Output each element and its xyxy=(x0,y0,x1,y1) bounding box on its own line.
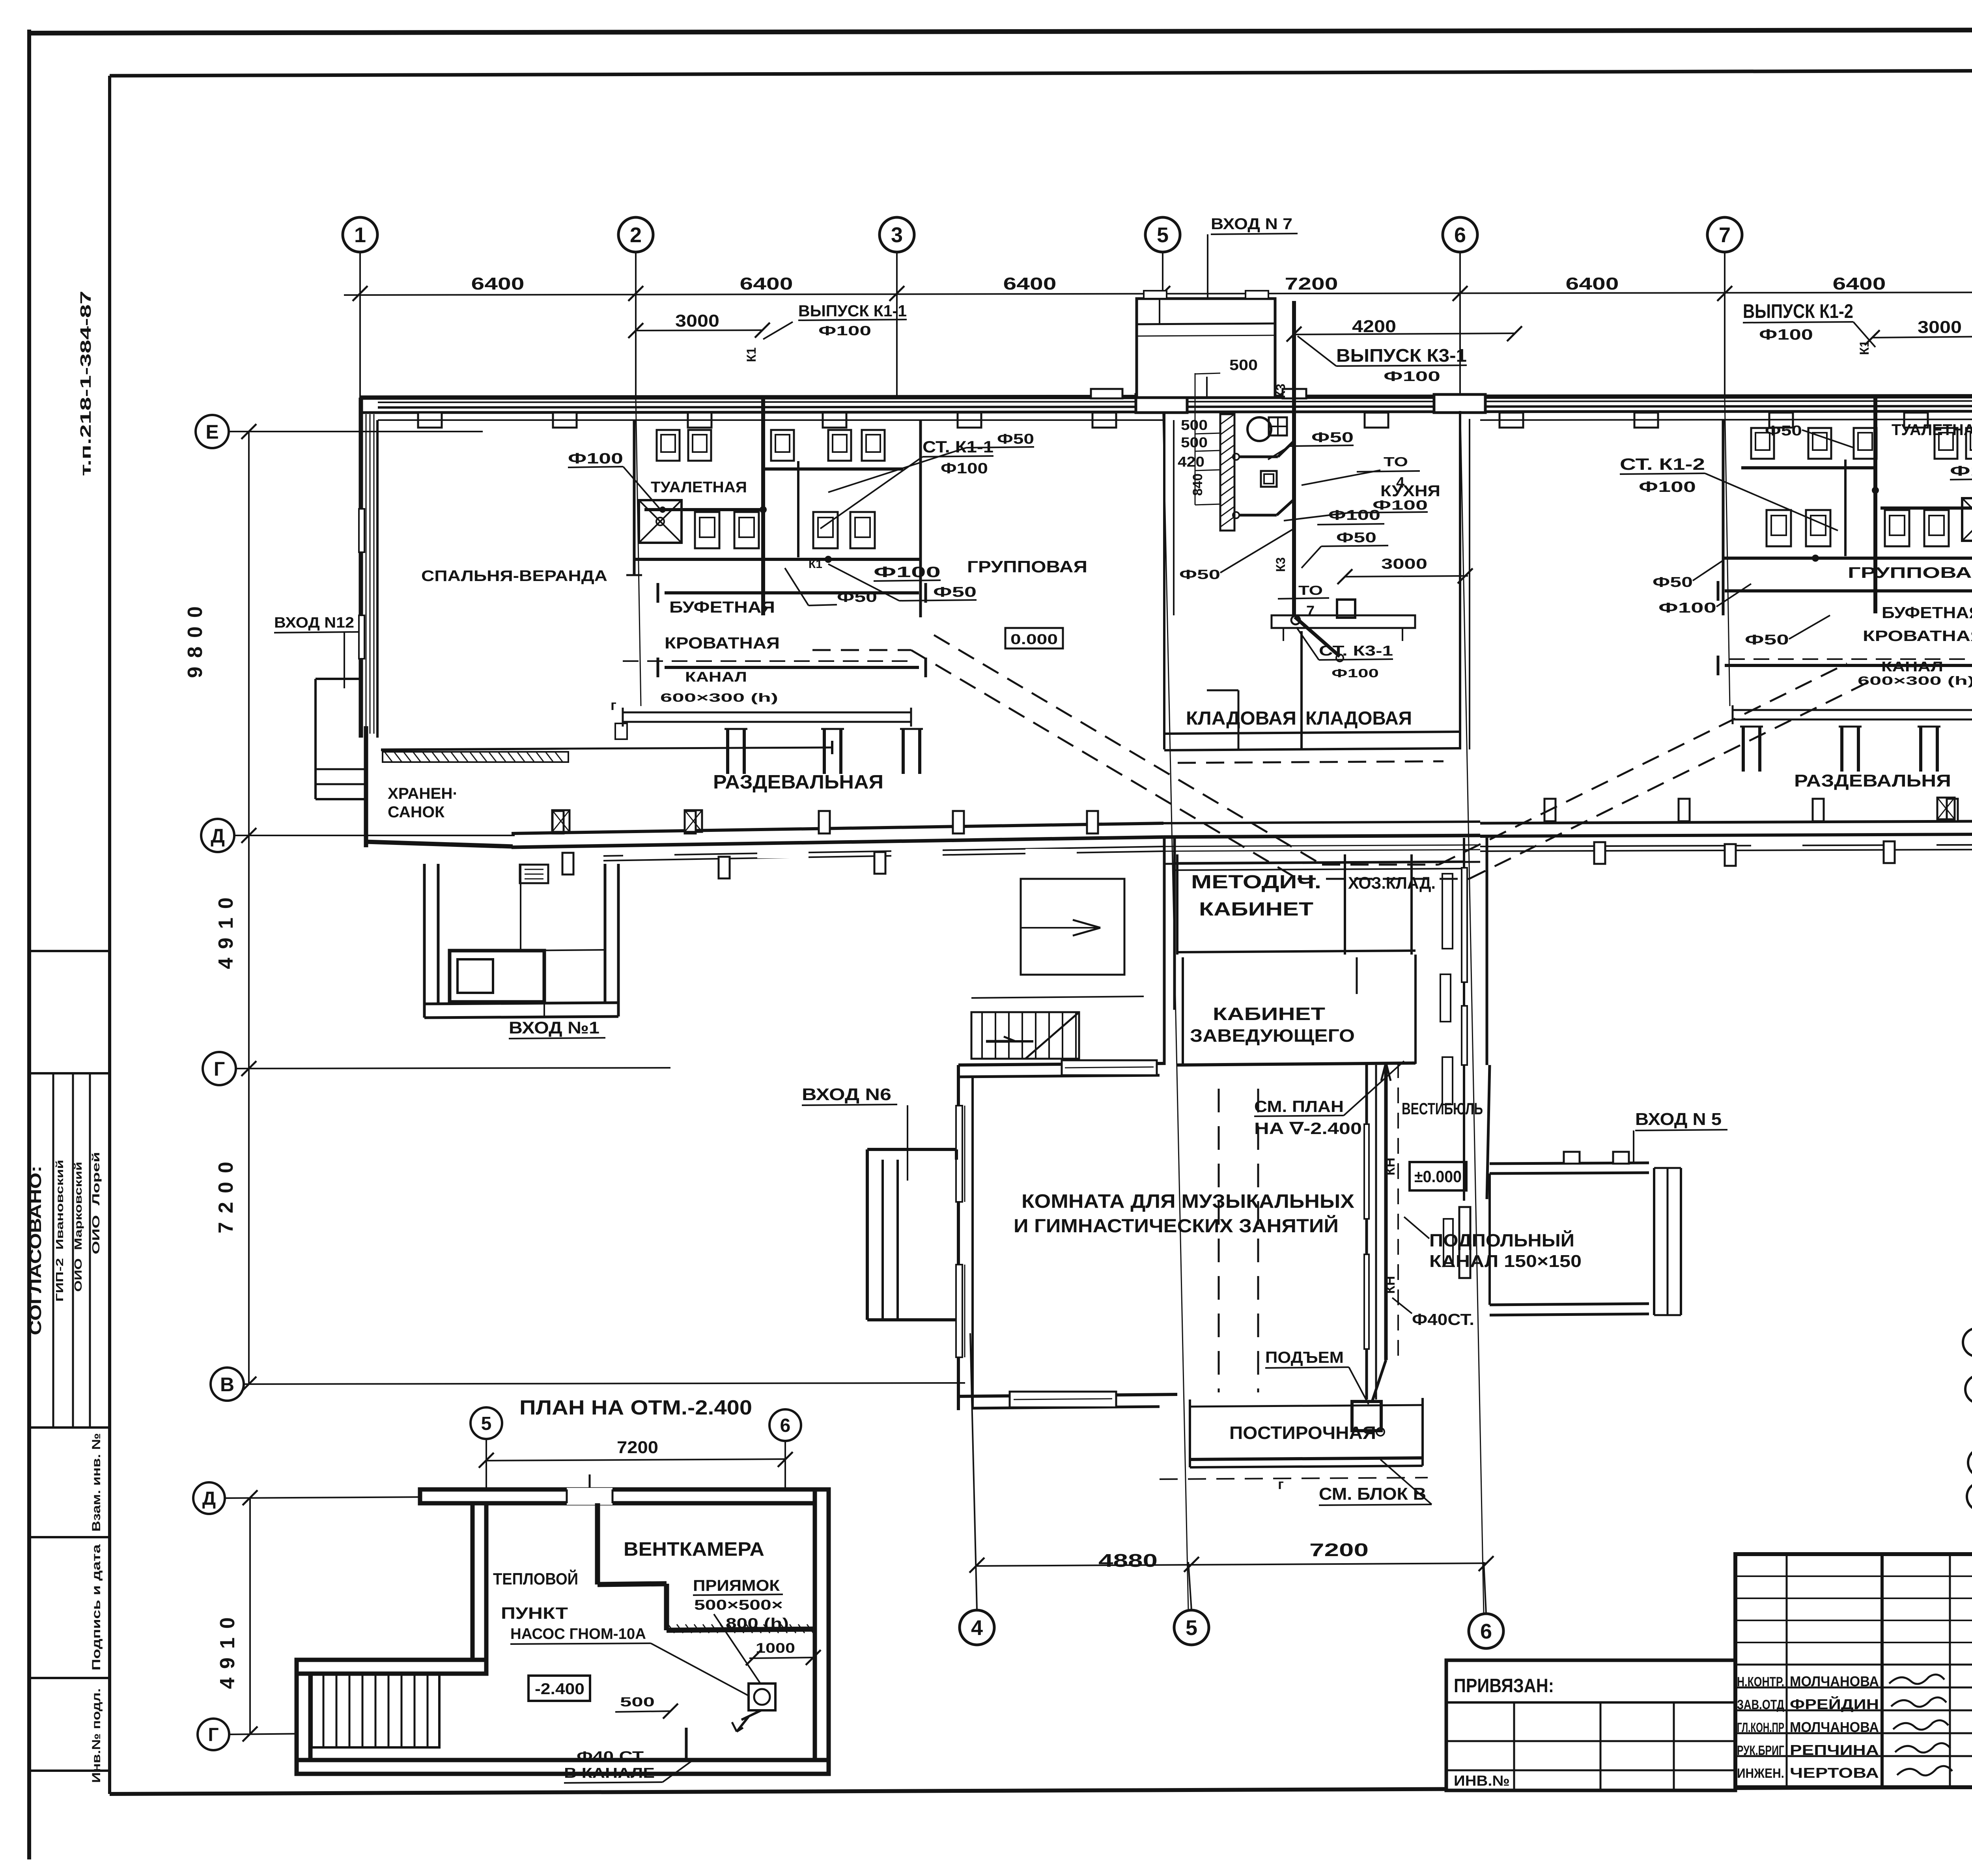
svg-text:К1: К1 xyxy=(744,348,758,362)
porch N1 inner lines xyxy=(521,864,605,951)
basement pump xyxy=(732,1684,775,1732)
title block signature rows xyxy=(1735,1665,1972,1756)
svg-text:6400: 6400 xyxy=(471,274,525,293)
svg-text:ХРАНЕН·: ХРАНЕН· xyxy=(388,785,458,802)
title block main verticals xyxy=(1787,1551,1972,1787)
stamp rotated СОГЛАСОВАНО xyxy=(26,1166,45,1335)
dimension text 6400 xyxy=(1003,274,1057,293)
left bottom wall pier tab xyxy=(1087,811,1098,833)
left exterior wall glazing xyxy=(366,414,374,734)
svg-text:6400: 6400 xyxy=(740,274,793,293)
svg-text:Ф100: Ф100 xyxy=(874,564,941,581)
svg-text:ВХОД N6: ВХОД N6 xyxy=(802,1085,891,1104)
left wing bottom wall inner xyxy=(512,823,1163,833)
svg-text:ФРЕЙДИН: ФРЕЙДИН xyxy=(1790,1696,1879,1712)
stamp column divider y2721 xyxy=(29,1072,110,1074)
kitchen right wall xyxy=(1460,411,1470,749)
svg-text:СТ. К3-1: СТ. К3-1 xyxy=(1319,643,1393,659)
axis Д leader xyxy=(234,828,515,843)
doormat left wing xyxy=(520,865,548,883)
top dimension line xyxy=(344,292,1972,295)
svg-text:В: В xyxy=(220,1373,234,1396)
label Ф50 mid left xyxy=(828,564,977,601)
svg-text:КЛАДОВАЯ: КЛАДОВАЯ xyxy=(1186,708,1296,729)
stamp column divider y3619 xyxy=(29,1426,110,1429)
basement radiator zone xyxy=(312,1674,439,1747)
label K1 rotated right xyxy=(1857,340,1871,355)
label Кухня xyxy=(1380,482,1440,500)
partition wall tualet mid xyxy=(797,461,799,557)
wall pilaster tabs xyxy=(418,413,1972,428)
kitchen diagonal pipe xyxy=(1291,600,1355,661)
vestibule heater boxes xyxy=(1440,874,1470,1278)
svg-text:ЗАВ.ОТД: ЗАВ.ОТД xyxy=(1737,1697,1784,1712)
pipe K3 stack xyxy=(1274,301,1294,617)
label Ф50 upper left xyxy=(828,431,1034,492)
basement left wall lower xyxy=(297,1674,310,1760)
svg-text:ТУАЛЕТНАЯ: ТУАЛЕТНАЯ xyxy=(651,479,747,496)
svg-text:ИНВ.№: ИНВ.№ xyxy=(1454,1773,1510,1789)
dashed corridor left upper xyxy=(934,635,1322,865)
svg-text:НАСОС ГНОМ-10А: НАСОС ГНОМ-10А xyxy=(510,1626,646,1642)
svg-text:ГРУППОВАЯ: ГРУППОВАЯ xyxy=(1848,564,1972,581)
right wing bottom wall inner xyxy=(1480,820,1972,823)
basement top wall break xyxy=(567,1474,613,1505)
label Выпуск К1-1 xyxy=(798,302,907,338)
privyazan table outline xyxy=(1446,1660,1735,1790)
label K1 small mid xyxy=(809,558,822,571)
room corridor top wall xyxy=(1164,862,1480,864)
krovatnaya kanal duct xyxy=(615,708,911,739)
dashed corridor right lower xyxy=(1469,678,1877,879)
partition wall tualet right-wing L xyxy=(1722,419,1725,615)
svg-text:ЧЕРТОВА: ЧЕРТОВА xyxy=(1790,1765,1879,1781)
keyplan axis Д circle xyxy=(1965,1375,1972,1403)
svg-text:5: 5 xyxy=(481,1413,492,1434)
window sill right wing xyxy=(1885,838,1937,848)
shower tray with cross right xyxy=(1962,498,1972,541)
svg-text:7: 7 xyxy=(1719,223,1731,247)
right wing bottom wall glazing xyxy=(1480,844,1972,851)
dimension tick xyxy=(1717,286,1732,301)
room label Кроватная left xyxy=(665,634,780,652)
interior wall line right wing xyxy=(1480,419,1972,420)
label Выпуск К1-2 xyxy=(1743,300,1875,347)
svg-text:840: 840 xyxy=(1190,473,1205,496)
svg-text:500×500×: 500×500× xyxy=(694,1597,783,1613)
interior wall line left wing xyxy=(378,419,1163,421)
kladovaya bottom wall xyxy=(1164,748,1459,750)
stamp rotated doc number xyxy=(78,291,94,476)
sheet outer border top edge xyxy=(27,29,1972,33)
svg-text:Ф100: Ф100 xyxy=(1658,600,1716,616)
basement pipe elbow xyxy=(686,1728,710,1759)
corridor wall bufetnaya right xyxy=(1718,581,1972,601)
room label Групповая left xyxy=(967,557,1087,576)
pipe junction dots right xyxy=(1812,487,1879,562)
svg-text:РАЗДЕВАЛЬНАЯ: РАЗДЕВАЛЬНАЯ xyxy=(713,772,883,793)
svg-text:ПЛАН НА ОТМ.-2.400: ПЛАН НА ОТМ.-2.400 xyxy=(519,1396,752,1419)
axis 4 circle bottom xyxy=(960,1610,994,1645)
right bottom wall pier tab xyxy=(1679,799,1690,821)
keyplan axis Б circle xyxy=(1968,1448,1972,1477)
svg-text:6: 6 xyxy=(1480,1620,1492,1643)
label Ст К1-1 xyxy=(820,437,993,529)
entry N5 porch top xyxy=(1490,1152,1649,1173)
basement title xyxy=(519,1396,752,1419)
label кн rotated 1 xyxy=(1383,1158,1398,1175)
basement left wall upper xyxy=(472,1503,486,1660)
svg-text:КН: КН xyxy=(1383,1276,1398,1294)
dimension tick xyxy=(628,286,643,301)
dimension tick xyxy=(889,286,904,301)
svg-text:5: 5 xyxy=(1157,223,1169,247)
window sill left wing xyxy=(757,849,809,858)
toilet fixtures row top right xyxy=(1751,428,1972,459)
stamp rotated Взам. инв. № xyxy=(90,1433,103,1532)
partition wall tualet right xyxy=(919,420,922,617)
svg-text:Ф50: Ф50 xyxy=(1745,632,1789,648)
svg-text:ВЕСТИБЮЛЬ: ВЕСТИБЮЛЬ xyxy=(1402,1099,1483,1118)
svg-text:ТУАЛЕТНАЯ: ТУАЛЕТНАЯ xyxy=(1892,421,1972,439)
label Ф100 mid left xyxy=(874,564,941,581)
stamp rotated approver 3 xyxy=(90,1152,102,1254)
svg-text:ПРИЯМОК: ПРИЯМОК xyxy=(693,1577,780,1594)
axis 3 circle xyxy=(880,217,914,252)
svg-text:4: 4 xyxy=(1396,475,1404,491)
toilet fixtures row 2 right xyxy=(1767,510,1949,546)
svg-text:600×300 (h): 600×300 (h) xyxy=(660,691,778,704)
left bottom wall pier tab xyxy=(553,811,564,833)
svg-text:7200: 7200 xyxy=(1309,1540,1369,1560)
metodich room walls xyxy=(1177,854,1416,955)
svg-text:РАЗДЕВАЛЬНЯ: РАЗДЕВАЛЬНЯ xyxy=(1794,771,1951,790)
secondary dim 4200 center xyxy=(1287,317,1522,342)
room label Кроватная right xyxy=(1863,628,1972,645)
svg-text:В КАНАЛЕ: В КАНАЛЕ xyxy=(564,1765,655,1781)
kitchen bottom wall xyxy=(1164,732,1459,734)
svg-text:Ф50: Ф50 xyxy=(1311,429,1354,445)
dashed corridor horizontal kladovaya xyxy=(1178,761,1444,763)
basement top wall xyxy=(420,1489,829,1503)
svg-text:К1: К1 xyxy=(809,558,822,571)
label Комната для музыкальных xyxy=(1014,1191,1354,1237)
pipe horizontal shower right xyxy=(1880,506,1972,510)
dimension tick xyxy=(353,286,368,301)
svg-text:500: 500 xyxy=(1229,357,1258,374)
right wing bottom wall outer xyxy=(1480,833,1972,836)
stair lower arrow xyxy=(986,1037,1016,1041)
svg-text:СТ. К1-2: СТ. К1-2 xyxy=(1620,455,1705,473)
title block names xyxy=(1737,1673,1879,1781)
svg-text:Ф100: Ф100 xyxy=(818,323,871,338)
svg-text:4: 4 xyxy=(971,1616,983,1640)
left wall window sill marks xyxy=(359,509,364,659)
svg-text:5: 5 xyxy=(1186,1616,1197,1640)
svg-text:6400: 6400 xyxy=(1003,274,1057,293)
left wing bottom wall outer xyxy=(512,837,1163,847)
vestibule N7 walls xyxy=(1137,299,1275,398)
room label канал left xyxy=(685,669,747,685)
label Ф100 right2 xyxy=(1950,463,1972,480)
svg-text:Д: Д xyxy=(211,825,225,847)
bottom dim 7200 xyxy=(1309,1540,1369,1560)
svg-text:КУХНЯ: КУХНЯ xyxy=(1380,482,1440,500)
svg-text:3000: 3000 xyxy=(1918,318,1962,337)
krovatnaya kanal duct right xyxy=(1733,705,1972,737)
svg-text:Ф100: Ф100 xyxy=(1373,498,1428,513)
corridor wall krovatnaya xyxy=(658,658,926,677)
hatched pier left 1 xyxy=(552,810,570,832)
svg-text:КРОВАТНАЯ: КРОВАТНАЯ xyxy=(665,634,780,652)
svg-text:Ф100: Ф100 xyxy=(1331,666,1379,680)
secondary dim 3000 right xyxy=(1865,318,1972,345)
kitchen fixture squares xyxy=(1261,417,1287,487)
axis 2 circle xyxy=(618,217,653,252)
svg-text:4910: 4910 xyxy=(215,889,237,969)
svg-text:Взам. инв. №: Взам. инв. № xyxy=(90,1433,103,1532)
svg-text:4910: 4910 xyxy=(216,1609,239,1689)
svg-text:7: 7 xyxy=(1306,603,1315,620)
svg-text:ВЫПУСК К1-1: ВЫПУСК К1-1 xyxy=(798,302,907,320)
basement step wall xyxy=(297,1660,486,1674)
dashed corridor horizontal 2 xyxy=(812,649,911,651)
bed bars right xyxy=(1740,727,1940,772)
pipe horizontal top left xyxy=(763,467,903,471)
basement axis Д leader xyxy=(225,1490,434,1505)
label Подпольный канал xyxy=(1404,1217,1582,1271)
left bottom wall pier tab xyxy=(819,811,830,833)
tabs above band at vestibule xyxy=(1091,389,1306,398)
entry N12 porch xyxy=(316,679,366,799)
label Хоз клад xyxy=(1348,874,1436,893)
left bottom wall pier tab xyxy=(685,811,696,833)
svg-text:Ф100: Ф100 xyxy=(1328,507,1380,523)
svg-text:КАБИНЕТ: КАБИНЕТ xyxy=(1199,899,1313,920)
label Вход №1 xyxy=(509,966,605,1039)
music room window band 2 xyxy=(956,1265,965,1357)
label Ф100 right mid xyxy=(1658,584,1751,616)
stamp rotated approver 2 xyxy=(72,1162,84,1292)
svg-text:7200: 7200 xyxy=(617,1438,658,1457)
sled storage walls left xyxy=(366,726,568,847)
svg-text:Инв.№ подл.: Инв.№ подл. xyxy=(90,1688,103,1783)
axis В circle xyxy=(211,1368,244,1401)
label Подъем xyxy=(1265,1348,1369,1404)
svg-text:К3: К3 xyxy=(1274,557,1288,572)
label 1000 xyxy=(746,1641,821,1665)
stamp rotated Подпись и дата xyxy=(90,1544,103,1670)
svg-text:3000: 3000 xyxy=(675,311,719,331)
axis 6 line in plan xyxy=(1460,398,1484,1613)
ventkamera walls xyxy=(598,1503,815,1630)
svg-text:0.000: 0.000 xyxy=(1010,631,1058,647)
label Методич кабинет xyxy=(1191,872,1321,920)
svg-text:ЗАВЕДУЮЩЕГО: ЗАВЕДУЮЩЕГО xyxy=(1190,1026,1355,1046)
room label Хранен left xyxy=(388,785,458,821)
svg-text:МЕТОДИЧ.: МЕТОДИЧ. xyxy=(1191,872,1321,893)
svg-text:т.п.218-1-384-87: т.п.218-1-384-87 xyxy=(78,291,94,476)
basement axis Г leader xyxy=(229,1727,312,1741)
level box +0.000 xyxy=(1410,1162,1466,1190)
toilet fixtures row top xyxy=(657,430,885,461)
svg-text:7200: 7200 xyxy=(215,1153,237,1233)
svg-text:Ф40 СТ.: Ф40 СТ. xyxy=(577,1748,647,1764)
window sill left wing xyxy=(1025,849,1077,858)
svg-text:1000: 1000 xyxy=(756,1641,795,1656)
svg-text:КЛАДОВАЯ: КЛАДОВАЯ xyxy=(1305,708,1412,729)
left exterior wall outer xyxy=(359,398,363,738)
axis 6 leader line xyxy=(1459,252,1461,398)
leader to K1 stack left xyxy=(763,322,793,339)
left dim 4910a xyxy=(215,889,237,969)
svg-text:Ф50: Ф50 xyxy=(1765,422,1802,439)
kitchen stove circle xyxy=(1247,417,1271,441)
title block left thin rows xyxy=(1735,1576,1972,1642)
svg-text:КАБИНЕТ: КАБИНЕТ xyxy=(1213,1004,1325,1024)
label Ф50 bufet left xyxy=(785,568,877,605)
axis 1 leader line xyxy=(359,252,361,398)
axis 7 line in plan xyxy=(1725,398,1730,706)
left dim chain vertical xyxy=(248,432,250,1384)
label Вход N5 xyxy=(1634,1110,1727,1164)
left dim 9800 xyxy=(184,598,207,678)
axis 2 leader line xyxy=(635,252,637,398)
svg-text:СМ. ПЛАН: СМ. ПЛАН xyxy=(1254,1097,1344,1116)
pipe K1 main stack right xyxy=(1873,397,1877,613)
svg-text:-2.400: -2.400 xyxy=(535,1680,585,1698)
corridor wall krovatnaya right xyxy=(1718,656,1972,675)
svg-text:Ф50: Ф50 xyxy=(1653,574,1693,590)
axis 4 leader bottom xyxy=(970,1333,977,1610)
top exterior wall glazing line 1 xyxy=(378,401,1972,408)
toilet fixtures row 2 xyxy=(695,512,875,548)
label Ф40ст в канале xyxy=(564,1748,694,1783)
stamp rotated Инв. № подл. xyxy=(90,1688,103,1783)
svg-text:ТО: ТО xyxy=(1298,583,1323,598)
ventkamera hatch wall xyxy=(668,1624,813,1633)
stamp column divider y3897 xyxy=(29,1536,110,1538)
svg-text:ВЕНТКАМЕРА: ВЕНТКАМЕРА xyxy=(624,1539,764,1560)
svg-text:ВЫПУСК К3-1: ВЫПУСК К3-1 xyxy=(1336,345,1467,366)
svg-text:г: г xyxy=(611,697,616,713)
svg-text:ПУНКТ: ПУНКТ xyxy=(501,1604,568,1622)
porch N1 right wall xyxy=(605,864,618,1016)
svg-text:Д: Д xyxy=(202,1488,216,1509)
svg-text:ПОСТИРОЧНАЯ: ПОСТИРОЧНАЯ xyxy=(1229,1423,1376,1443)
KN to hoist diagonal xyxy=(1372,1360,1386,1403)
kitchen vent shaft hatched xyxy=(1220,414,1234,531)
kabinet zaved walls xyxy=(1183,955,1416,1064)
basement right wall xyxy=(815,1489,829,1774)
left exterior wall inner xyxy=(376,420,379,738)
svg-text:ОИО Лорей: ОИО Лорей xyxy=(90,1152,102,1254)
svg-text:ОИО Марковский: ОИО Марковский xyxy=(72,1162,84,1292)
label Ст К1-2 xyxy=(1620,455,1838,531)
below band tab right xyxy=(1725,844,1736,866)
bed bars left xyxy=(725,729,923,774)
label Постирочная xyxy=(1229,1423,1376,1443)
KN channel dashed xyxy=(1397,1062,1399,1360)
music room door bottom xyxy=(1010,1392,1116,1407)
label Ф50 kitchen top xyxy=(1268,429,1354,460)
stair lower hatched xyxy=(971,996,1144,1059)
room label канал right xyxy=(1881,659,1943,675)
label K1 rotated left xyxy=(744,348,758,362)
pier at axis 5 xyxy=(1136,394,1187,413)
svg-text:К1: К1 xyxy=(1857,340,1871,355)
svg-text:Ф100: Ф100 xyxy=(1384,369,1440,384)
svg-text:±0.000: ±0.000 xyxy=(1414,1167,1462,1186)
axis В leader xyxy=(241,1377,965,1392)
window sill left wing xyxy=(891,849,943,858)
svg-text:6400: 6400 xyxy=(1566,274,1619,293)
label См Блок В xyxy=(1319,1459,1432,1505)
right bottom wall pier tab xyxy=(1947,799,1958,821)
below band tab left xyxy=(562,853,573,874)
svg-text:4880: 4880 xyxy=(1098,1550,1158,1571)
svg-text:ТО: ТО xyxy=(1384,454,1408,469)
svg-text:САНОК: САНОК xyxy=(388,803,445,821)
svg-text:СПАЛЬНЯ-ВЕРАНДА: СПАЛЬНЯ-ВЕРАНДА xyxy=(421,568,607,585)
axis Е circle xyxy=(196,415,229,448)
dimension text 6400 xyxy=(1833,274,1886,293)
svg-text:Г: Г xyxy=(214,1058,225,1080)
svg-text:ТЕПЛОВОЙ: ТЕПЛОВОЙ xyxy=(493,1569,578,1588)
svg-text:Ф100: Ф100 xyxy=(1950,463,1972,479)
label насос ГНОМ-10А xyxy=(510,1626,749,1696)
krovatnaya kanal dim line right xyxy=(1729,659,1972,711)
hatched pier left 2 xyxy=(685,810,702,832)
room label Туалетная left xyxy=(651,479,747,496)
sheet outer border left edge xyxy=(27,30,31,1859)
left dim 7200 xyxy=(215,1153,237,1233)
room label Раздевальня right xyxy=(1794,771,1951,790)
window sill right wing xyxy=(1751,838,1802,848)
room label Спальня-веранда left xyxy=(421,568,607,585)
central corridor south band xyxy=(1163,822,1480,851)
basement axis 5 leader xyxy=(486,1439,487,1495)
svg-text:РЕПЧИНА: РЕПЧИНА xyxy=(1790,1742,1879,1758)
svg-text:7200: 7200 xyxy=(1285,274,1338,293)
basement dim 7200 xyxy=(479,1438,793,1468)
music room window band 1 xyxy=(956,1106,965,1202)
entry N5 porch stairs xyxy=(1654,1168,1681,1315)
bottom dim 4880 xyxy=(1098,1550,1158,1571)
label Вестибюль xyxy=(1402,1099,1483,1118)
secondary dim 3000 left xyxy=(628,311,770,338)
title block outer xyxy=(1735,1554,1972,1787)
axis 5 line in plan xyxy=(1163,398,1188,1610)
label Ф50 kitchen left xyxy=(1179,529,1294,582)
room label Буфетная left xyxy=(669,598,775,616)
music room top wall xyxy=(958,1063,1416,1077)
label Кладовая 1 xyxy=(1186,708,1296,729)
stair upper with arrow xyxy=(1021,879,1124,975)
vestibule right wall upper xyxy=(1464,838,1487,1065)
music room bottom wall xyxy=(958,1394,1177,1408)
axis 3 leader line xyxy=(896,252,898,398)
svg-text:6: 6 xyxy=(1454,223,1466,247)
svg-text:СМ. БЛОК В: СМ. БЛОК В xyxy=(1319,1484,1426,1504)
label Инв № xyxy=(1454,1773,1510,1789)
svg-text:КОМНАТА ДЛЯ МУЗЫКАЛЬНЫХ: КОМНАТА ДЛЯ МУЗЫКАЛЬНЫХ xyxy=(1021,1191,1354,1212)
privyazan table lines xyxy=(1446,1702,1735,1790)
axis 5 circle bottom xyxy=(1174,1610,1209,1645)
axis Д circle xyxy=(201,819,234,852)
svg-text:КН: КН xyxy=(1383,1158,1398,1175)
label ТО 4 xyxy=(1302,454,1420,491)
